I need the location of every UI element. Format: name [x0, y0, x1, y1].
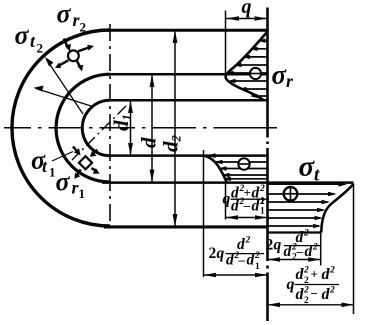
svg-text:2: 2	[312, 243, 318, 253]
extension line for F2 dimension (sigma_t at d1, inner)	[203, 150, 205, 277]
F2 dimension line	[204, 274, 268, 276]
svg-text:q: q	[287, 276, 295, 293]
F4 dimension line	[268, 304, 354, 306]
svg-text:2: 2	[303, 286, 309, 296]
svg-text:2: 2	[245, 236, 251, 246]
svg-text:2: 2	[303, 266, 309, 276]
svg-text:2: 2	[329, 286, 335, 296]
sigma_t minus (inner part) distribution curve	[204, 156, 227, 183]
svg-text:d: d	[231, 198, 239, 215]
extension line for F4 dimension (sigma_t at d, outer)	[353, 184, 355, 315]
d1 bottom edge line	[110, 154, 269, 157]
outer element tangential arrow (out SW)	[59, 60, 68, 65]
svg-text:σ: σ	[56, 167, 71, 196]
svg-text:d: d	[137, 137, 161, 148]
top edge line (d2 top)	[107, 29, 269, 32]
q dimension line	[226, 18, 268, 20]
d top edge line	[110, 73, 269, 76]
minus circle symbol in sigma_r diagram	[250, 68, 261, 79]
svg-text:q: q	[242, 0, 252, 18]
d2 bottom edge line	[104, 225, 269, 228]
thin radial arrow from d1 arc to outer arc (upper)	[47, 60, 84, 115]
svg-text:1: 1	[255, 262, 260, 272]
d2 dimension line with arrows	[174, 30, 176, 227]
svg-text:t: t	[314, 165, 320, 186]
svg-text:−: −	[311, 286, 318, 301]
d1 dimension line with arrows	[130, 100, 132, 155]
inner hole d1 semicircular arc	[82, 100, 110, 155]
svg-text:t: t	[30, 31, 36, 51]
sigma_t plus hatch lines with arrows	[268, 184, 345, 226]
outer element radial arrow (out SE)	[77, 60, 80, 66]
svg-text:1: 1	[260, 207, 265, 217]
svg-text:σ: σ	[15, 21, 30, 50]
sigma_r hatch lines with arrows	[228, 41, 268, 96]
extension line for F1 dimension (sigma_t at d, inner)	[225, 184, 227, 220]
outer boundary semicircular arc (d2 outer surface)	[12, 30, 110, 226]
svg-text:2: 2	[80, 20, 87, 35]
F1 dimension line	[226, 217, 268, 219]
outer element tangential arrow (out NE)	[78, 48, 89, 52]
svg-text:2: 2	[37, 41, 44, 56]
bottom baseline of sigma_t plus region	[268, 231, 322, 233]
inner stress element square (diamond)	[79, 156, 92, 169]
formula F3: 2q d^2/(d2^2-d^2)	[266, 229, 319, 263]
vertical center line of arcs (dashed)	[109, 24, 111, 226]
main vertical axis of stress diagrams (right face)	[266, 8, 269, 322]
formula F2: 2q d^2/(d^2-d1^2)	[209, 236, 261, 273]
svg-text:2: 2	[266, 237, 274, 254]
horizontal center axis (dash-dot)	[4, 127, 277, 129]
F3 dimension line	[268, 259, 321, 261]
svg-text:q: q	[223, 191, 231, 208]
svg-text:t: t	[42, 156, 48, 176]
outer stress element circle	[68, 50, 79, 61]
joint diameter d semicircular arc	[56, 74, 110, 182]
leader line sigma_t1	[52, 152, 73, 162]
formula F1: q(d^2+d1^2)/(d^2-d1^2)	[223, 184, 266, 217]
svg-text:r: r	[286, 71, 294, 91]
svg-text:2: 2	[259, 197, 265, 207]
sigma_r distribution curve	[226, 32, 268, 101]
formula F4: q(d2^2+d^2)/(d2^2-d^2)	[287, 266, 336, 307]
svg-text:q: q	[217, 245, 225, 262]
d1 top edge line	[110, 99, 269, 102]
F1 fraction bar	[231, 198, 270, 200]
svg-text:d1: d1	[109, 114, 134, 131]
sigma_t minus hatch lines with arrows	[209, 156, 268, 179]
F4 fraction bar	[295, 284, 340, 286]
inner element radial arrow (out SW)	[77, 170, 80, 175]
svg-text:2: 2	[259, 184, 265, 194]
minus circle symbol in sigma_t minus diagram	[238, 158, 249, 169]
svg-text:2: 2	[254, 251, 260, 261]
outer element radial arrow (in from NW)	[55, 39, 94, 72]
svg-text:2: 2	[329, 266, 335, 276]
plus circle symbol in sigma_t plus diagram	[284, 187, 298, 201]
svg-text:+: +	[311, 267, 318, 282]
extension line from sigma-r vertex up to q dimension	[225, 11, 227, 75]
thin radial arrow from d1 arc outward (lower)	[36, 89, 91, 107]
inner element tangential arrow (out SE)	[92, 168, 97, 171]
svg-text:1: 1	[79, 186, 86, 201]
sigma_t plus (outer part) distribution curve	[321, 184, 353, 233]
F2 fraction bar	[226, 253, 265, 255]
q dimension arrowheads	[226, 16, 268, 21]
svg-text:2: 2	[209, 245, 217, 262]
svg-text:q: q	[274, 237, 282, 254]
inner element radial arrow (in from NE)	[93, 150, 97, 154]
svg-text:2: 2	[304, 296, 309, 306]
extension line for F3 dimension (sigma_t at d2, outer)	[320, 230, 322, 266]
svg-text:σ: σ	[299, 151, 316, 183]
svg-text:d2: d2	[159, 135, 184, 152]
diagonal dash-dot radial axis to inner element	[72, 106, 126, 160]
inner element tangential arrow (in from NW)	[73, 147, 100, 179]
svg-text:2: 2	[303, 229, 309, 239]
d bottom edge line (continues as top of sigma-t plus region)	[102, 181, 354, 184]
F3 fraction bar	[284, 245, 320, 247]
svg-text:d: d	[252, 198, 260, 215]
svg-text:σ: σ	[57, 0, 72, 28]
d dimension line with arrows	[151, 74, 153, 182]
